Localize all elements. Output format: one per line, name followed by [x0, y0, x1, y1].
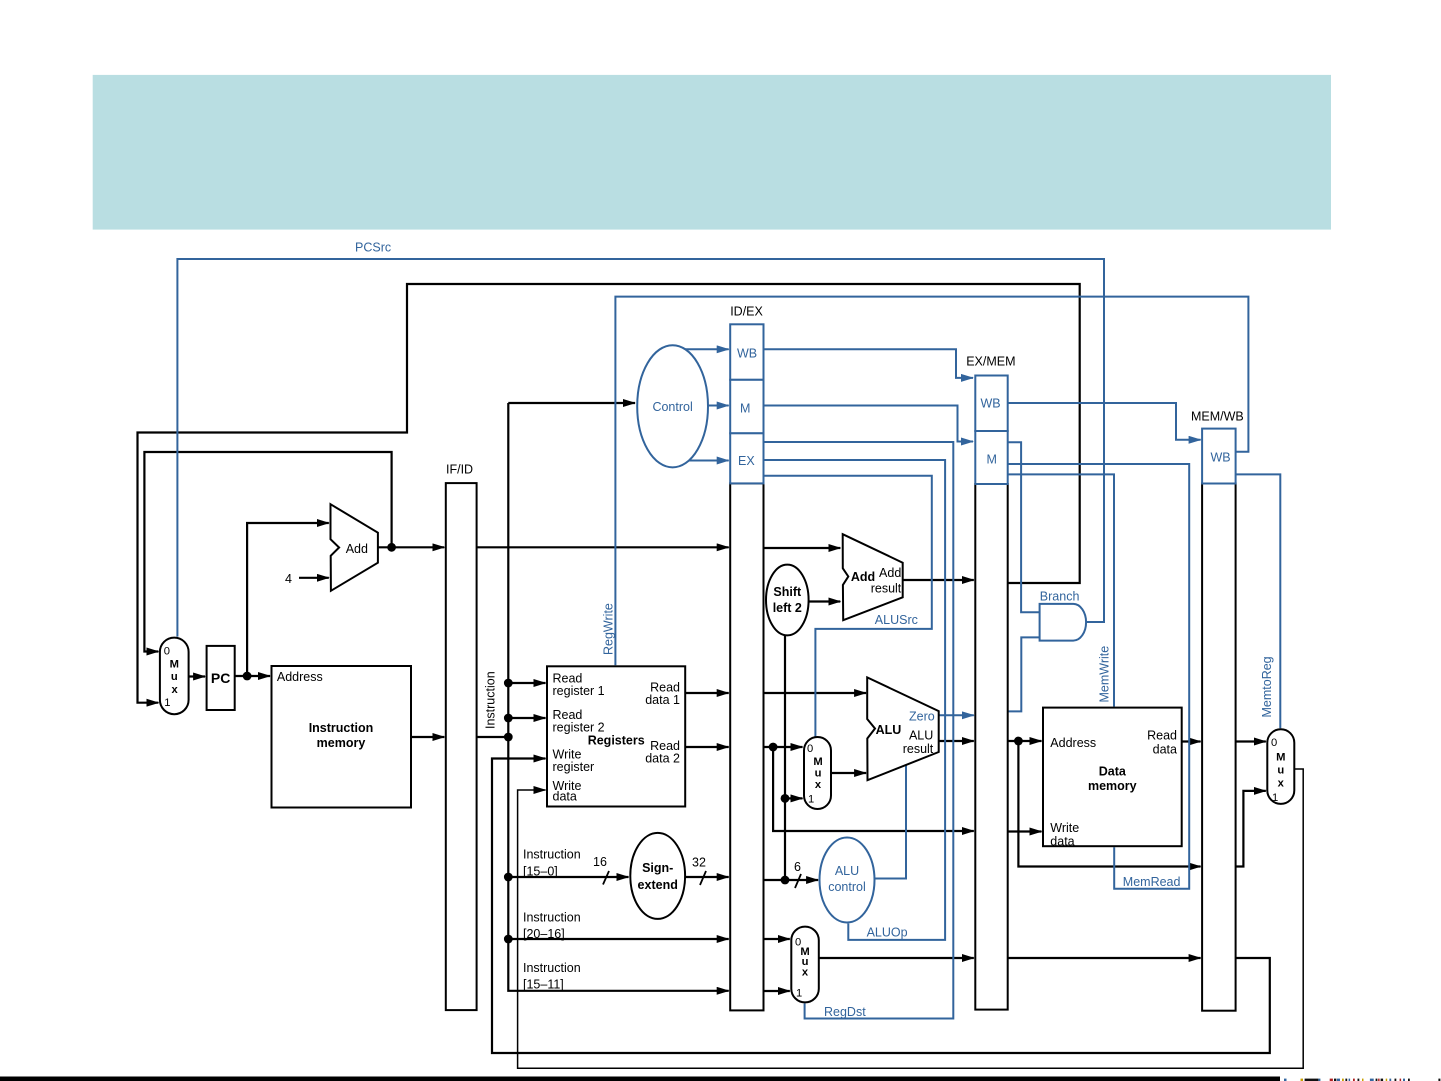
svg-text:Instruction: Instruction — [523, 848, 581, 862]
svg-text:EX: EX — [738, 454, 755, 468]
svg-text:Branch: Branch — [1040, 590, 1080, 604]
svg-text:u: u — [815, 768, 822, 780]
svg-text:u: u — [171, 671, 178, 683]
svg-text:Shift: Shift — [773, 585, 802, 599]
svg-text:Sign-: Sign- — [642, 861, 673, 875]
svg-text:WB: WB — [981, 397, 1001, 411]
svg-text:IF/ID: IF/ID — [446, 463, 473, 477]
svg-text:control: control — [828, 880, 866, 894]
svg-text:4: 4 — [285, 572, 292, 586]
svg-text:MemRead: MemRead — [1123, 875, 1181, 889]
svg-text:data 1: data 1 — [645, 693, 680, 707]
svg-text:0: 0 — [1271, 737, 1277, 749]
svg-text:x: x — [802, 967, 809, 979]
svg-text:M: M — [170, 659, 179, 671]
svg-text:PC: PC — [211, 670, 230, 686]
svg-text:register: register — [553, 760, 595, 774]
svg-text:32: 32 — [692, 856, 706, 870]
svg-text:ALU: ALU — [909, 728, 933, 742]
svg-text:MEM/WB: MEM/WB — [1191, 410, 1244, 424]
svg-text:memory: memory — [317, 736, 366, 750]
svg-text:[20–16]: [20–16] — [523, 927, 565, 941]
svg-text:Registers: Registers — [588, 734, 645, 748]
svg-text:register 2: register 2 — [553, 721, 605, 735]
svg-text:memory: memory — [1088, 779, 1137, 793]
svg-text:x: x — [171, 684, 178, 696]
svg-text:ALUSrc: ALUSrc — [875, 613, 918, 627]
svg-text:data: data — [1153, 743, 1177, 757]
svg-text:result: result — [871, 582, 902, 596]
svg-text:M: M — [1276, 752, 1285, 764]
svg-text:Instruction: Instruction — [484, 671, 498, 729]
svg-text:[15–0]: [15–0] — [523, 865, 558, 879]
svg-text:RegDst: RegDst — [824, 1005, 866, 1019]
svg-text:data 2: data 2 — [645, 752, 680, 766]
svg-text:Data: Data — [1099, 765, 1127, 779]
svg-text:result: result — [903, 742, 934, 756]
svg-text:u: u — [1277, 764, 1284, 776]
svg-text:x: x — [815, 779, 822, 791]
svg-text:[15–11]: [15–11] — [523, 978, 564, 992]
svg-text:Control: Control — [652, 400, 692, 414]
svg-text:EX/MEM: EX/MEM — [966, 355, 1015, 369]
svg-text:x: x — [1278, 777, 1285, 789]
svg-text:M: M — [813, 756, 822, 768]
svg-text:0: 0 — [164, 646, 170, 658]
svg-text:Address: Address — [277, 670, 323, 684]
svg-text:Instruction: Instruction — [523, 961, 581, 975]
svg-text:16: 16 — [593, 855, 607, 869]
svg-text:1: 1 — [796, 988, 802, 1000]
svg-text:1: 1 — [1272, 792, 1278, 804]
svg-text:ID/EX: ID/EX — [730, 305, 763, 319]
svg-text:M: M — [987, 453, 997, 467]
svg-text:Zero: Zero — [909, 710, 935, 724]
svg-text:MemWrite: MemWrite — [1098, 646, 1112, 703]
svg-text:0: 0 — [807, 743, 813, 755]
svg-text:1: 1 — [164, 697, 170, 709]
svg-text:RegWrite: RegWrite — [602, 603, 616, 655]
svg-text:Address: Address — [1050, 736, 1096, 750]
svg-text:WB: WB — [737, 347, 757, 361]
svg-text:Add: Add — [879, 566, 901, 580]
svg-text:ALU: ALU — [835, 864, 859, 878]
svg-text:MemtoReg: MemtoReg — [1260, 656, 1274, 717]
svg-text:Read: Read — [1147, 729, 1177, 743]
svg-text:Write: Write — [1050, 821, 1079, 835]
svg-text:Instruction: Instruction — [309, 721, 374, 735]
svg-text:ALU: ALU — [876, 723, 902, 737]
svg-text:6: 6 — [794, 860, 801, 874]
svg-text:WB: WB — [1211, 451, 1231, 465]
svg-text:M: M — [740, 402, 750, 416]
svg-text:Instruction: Instruction — [523, 911, 581, 925]
svg-text:Add: Add — [346, 542, 368, 556]
svg-text:register 1: register 1 — [553, 684, 605, 698]
svg-text:data: data — [1050, 834, 1074, 848]
svg-text:left 2: left 2 — [773, 601, 802, 615]
svg-text:extend: extend — [638, 878, 678, 892]
svg-text:1: 1 — [808, 794, 814, 806]
svg-text:ALUOp: ALUOp — [867, 926, 908, 940]
svg-text:PCSrc: PCSrc — [355, 241, 391, 255]
svg-text:data: data — [553, 790, 577, 804]
